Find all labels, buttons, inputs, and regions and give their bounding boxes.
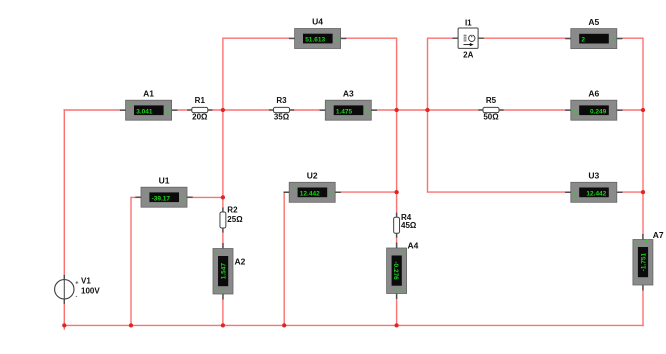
resistor R5 50Ω bbox=[478, 96, 503, 121]
ammeter A4 bbox=[387, 241, 419, 300]
svg-text:U3: U3 bbox=[588, 171, 599, 181]
voltmeter U1 bbox=[135, 175, 192, 207]
voltmeter U3 bbox=[565, 171, 622, 203]
ammeter A3 bbox=[320, 88, 377, 120]
svg-text:+: + bbox=[636, 279, 639, 285]
svg-text:A3: A3 bbox=[343, 88, 354, 98]
svg-text:A5: A5 bbox=[588, 17, 599, 27]
current source I1 2A bbox=[452, 18, 483, 59]
ammeter A2 bbox=[213, 243, 246, 300]
resistor R2 25Ω bbox=[220, 206, 243, 233]
wire U1 drop column x=131 bbox=[130, 197, 132, 326]
svg-text:-1.751: -1.751 bbox=[641, 253, 648, 272]
wire middle rail y=110 from left corner to right column bbox=[64, 109, 643, 111]
svg-text:R3: R3 bbox=[276, 96, 287, 105]
ammeter A5 bbox=[565, 17, 622, 49]
junction node bottom/U1 drop bbox=[129, 323, 133, 327]
svg-text:A7: A7 bbox=[653, 230, 664, 240]
svg-text:-: - bbox=[76, 294, 78, 300]
svg-text:-: - bbox=[365, 102, 367, 108]
svg-text:51.613: 51.613 bbox=[305, 37, 325, 44]
svg-text:A: A bbox=[573, 109, 577, 115]
wire U3 row y=192.1 bbox=[428, 191, 644, 193]
svg-text:A: A bbox=[644, 239, 650, 243]
svg-text:45Ω: 45Ω bbox=[401, 221, 417, 230]
wire I1 left column x=427.5 bbox=[427, 38, 429, 193]
junction node U3 row bbox=[641, 190, 645, 194]
svg-text:V: V bbox=[181, 196, 185, 202]
svg-text:-: - bbox=[401, 287, 403, 293]
junction node bottom/A4 bbox=[394, 323, 398, 327]
svg-text:A1: A1 bbox=[143, 88, 154, 98]
svg-text:A: A bbox=[392, 288, 398, 292]
svg-text:+: + bbox=[574, 31, 577, 37]
wire U2 drop column x=284.2 bbox=[283, 191, 285, 325]
resistor R3 35Ω bbox=[269, 96, 294, 121]
svg-text:A6: A6 bbox=[588, 88, 599, 98]
junction node bottom/U2 drop bbox=[282, 323, 286, 327]
voltmeter U4 bbox=[289, 17, 346, 49]
svg-text:+: + bbox=[574, 115, 577, 121]
svg-text:-: - bbox=[181, 189, 183, 195]
wire U1 row y=197.4 bbox=[131, 196, 223, 198]
svg-text:+: + bbox=[144, 190, 147, 196]
svg-text:-39.17: -39.17 bbox=[152, 195, 171, 202]
svg-text:A: A bbox=[221, 289, 227, 293]
resistor R4 45Ω bbox=[394, 213, 417, 238]
svg-text:A2: A2 bbox=[235, 256, 246, 266]
svg-text:+: + bbox=[215, 251, 218, 257]
svg-text:I1: I1 bbox=[465, 18, 472, 27]
svg-text:+: + bbox=[298, 31, 301, 37]
junction node bottom/V1 bbox=[62, 323, 66, 327]
svg-text:12.442: 12.442 bbox=[300, 190, 320, 197]
svg-text:1.547: 1.547 bbox=[221, 263, 228, 280]
svg-text:-: - bbox=[329, 184, 331, 190]
svg-text:-: - bbox=[610, 114, 612, 120]
svg-text:-0.276: -0.276 bbox=[392, 261, 399, 280]
svg-text:V: V bbox=[334, 37, 338, 43]
svg-text:A: A bbox=[165, 109, 169, 115]
junction node rail/x427 bbox=[425, 108, 429, 112]
wire right column x=643 bbox=[642, 38, 644, 327]
svg-text:A4: A4 bbox=[408, 241, 419, 251]
svg-text:-: - bbox=[215, 288, 217, 294]
svg-text:+: + bbox=[75, 280, 79, 286]
svg-text:25Ω: 25Ω bbox=[227, 215, 243, 224]
svg-text:+: + bbox=[574, 197, 577, 203]
wire column x=396.6 (U4 right / R4 / A4 branch) bbox=[396, 38, 398, 327]
svg-text:V1: V1 bbox=[81, 276, 91, 285]
svg-text:3.041: 3.041 bbox=[136, 108, 153, 115]
svg-text:1.475: 1.475 bbox=[336, 108, 353, 115]
wire column x=223 (U4 left / R2 / A2 branch) bbox=[222, 38, 224, 327]
svg-text:0.249: 0.249 bbox=[590, 108, 607, 115]
svg-text:12.442: 12.442 bbox=[586, 190, 606, 197]
svg-text:2: 2 bbox=[581, 37, 585, 44]
ammeter A6 bbox=[565, 88, 622, 120]
svg-text:100V: 100V bbox=[81, 286, 100, 295]
svg-text:50Ω: 50Ω bbox=[483, 113, 499, 122]
svg-text:+: + bbox=[401, 250, 404, 256]
svg-text:-: - bbox=[334, 31, 336, 37]
wire left column x=64.3 (V1 branch) bbox=[63, 109, 65, 329]
svg-text:+: + bbox=[292, 185, 295, 191]
svg-text:U4: U4 bbox=[312, 17, 323, 27]
junction node U1 row bbox=[221, 195, 225, 199]
ammeter A7 bbox=[633, 230, 664, 291]
svg-text:+: + bbox=[635, 242, 638, 248]
junction node rail/x643 bbox=[641, 108, 645, 112]
svg-text:-: - bbox=[165, 102, 167, 108]
svg-text:-: - bbox=[610, 196, 612, 202]
resistor R1 20Ω bbox=[187, 96, 212, 121]
svg-text:20Ω: 20Ω bbox=[192, 113, 208, 122]
svg-text:35Ω: 35Ω bbox=[274, 113, 290, 122]
voltmeter U2 bbox=[284, 171, 341, 203]
voltage source V1 100V bbox=[55, 275, 101, 304]
svg-text:R5: R5 bbox=[486, 96, 497, 105]
svg-text:R1: R1 bbox=[195, 96, 206, 105]
junction node U2 row bbox=[394, 190, 398, 194]
wire I1/A5 row y=38.2 bbox=[428, 37, 644, 39]
svg-text:V: V bbox=[329, 191, 333, 197]
svg-text:R2: R2 bbox=[227, 206, 238, 215]
wire U4 row y=38.2 bbox=[223, 37, 397, 39]
svg-text:U2: U2 bbox=[307, 171, 318, 181]
wire bottom rail y=325.4 bbox=[64, 324, 644, 326]
svg-text:V: V bbox=[573, 191, 577, 197]
svg-text:A: A bbox=[611, 37, 615, 43]
svg-text:+: + bbox=[329, 103, 332, 109]
svg-text:+: + bbox=[129, 103, 132, 109]
junction node rail/x223 bbox=[221, 108, 225, 112]
svg-text:U1: U1 bbox=[159, 175, 170, 185]
junction node rail/x396 bbox=[394, 108, 398, 112]
ammeter A1 bbox=[120, 88, 177, 120]
svg-text:-: - bbox=[610, 31, 612, 37]
svg-text:2A: 2A bbox=[463, 51, 473, 60]
junction node bottom/A2 bbox=[221, 323, 225, 327]
wire U2 row y=192.1 bbox=[284, 191, 397, 193]
svg-text:A: A bbox=[365, 109, 369, 115]
